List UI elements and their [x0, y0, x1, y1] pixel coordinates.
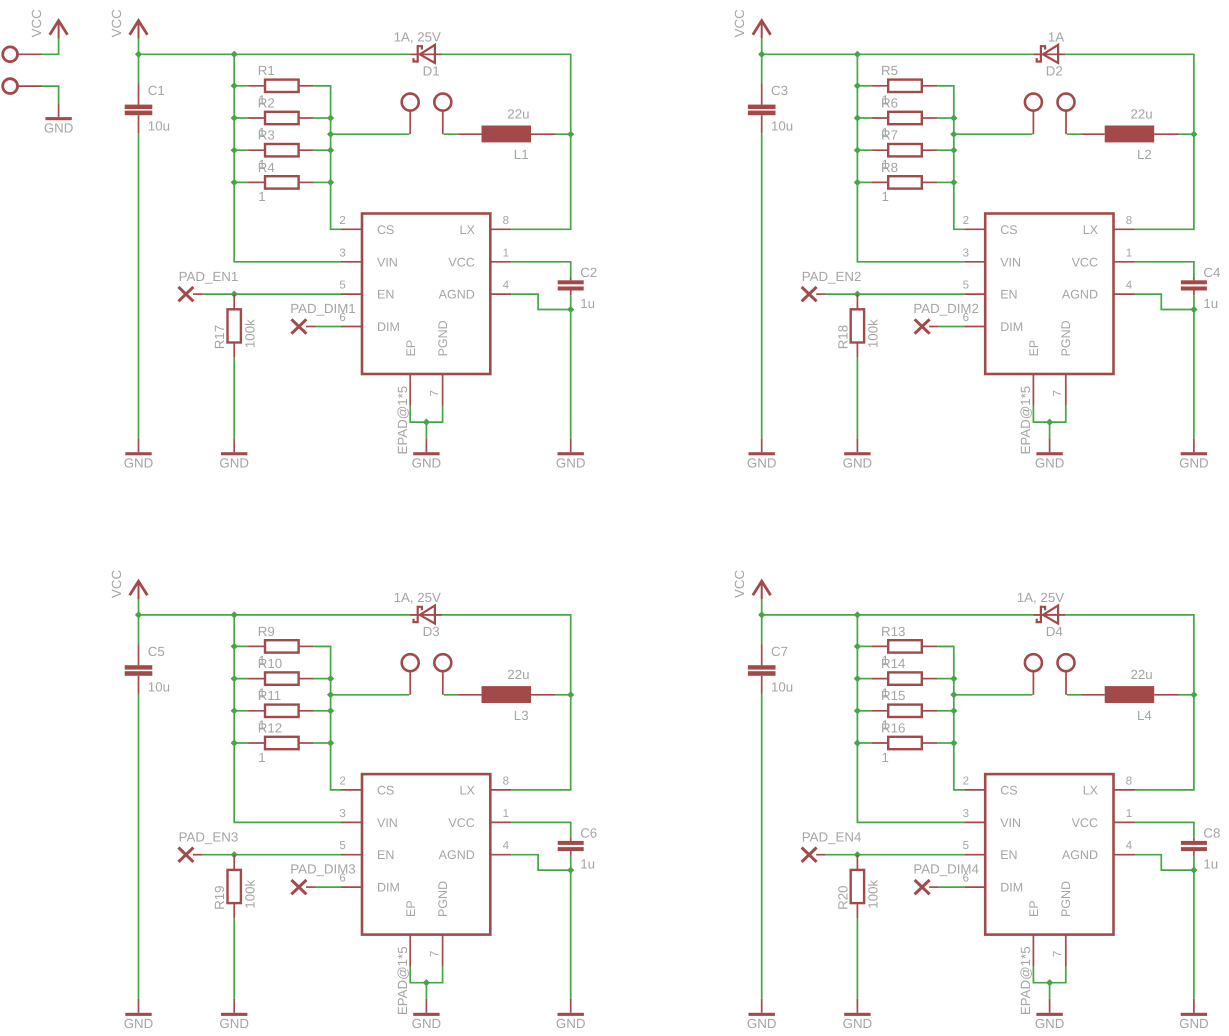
- svg-text:R14: R14: [881, 656, 905, 671]
- svg-text:VIN: VIN: [1000, 255, 1021, 269]
- junction right of R11: [327, 707, 334, 714]
- svg-text:100k: 100k: [866, 880, 881, 909]
- wire VCC stem: [138, 38, 140, 54]
- power flag VCC Q1: [130, 21, 148, 35]
- svg-text:R6: R6: [881, 95, 898, 110]
- svg-text:C1: C1: [148, 83, 165, 98]
- svg-text:GND: GND: [219, 1016, 249, 1031]
- junction left of R13: [854, 643, 861, 650]
- junction left of R5: [854, 82, 861, 89]
- capacitor C2 (1u): [570, 277, 572, 280]
- wire PAD_EN1 to pin EN: [193, 293, 203, 295]
- svg-text:LX: LX: [460, 783, 476, 797]
- pin 6 (DIM) of U2: [964, 326, 985, 328]
- junction jumper wire: [327, 131, 334, 138]
- junction left of R2: [231, 114, 238, 121]
- junction right of R8: [950, 179, 957, 186]
- svg-text:3: 3: [963, 808, 969, 820]
- svg-text:8: 8: [1126, 775, 1132, 787]
- wire EP to junction: [1033, 966, 1049, 982]
- svg-text:R8: R8: [881, 160, 898, 175]
- junction right of R7: [950, 147, 957, 154]
- ground below R18: [856, 438, 858, 452]
- svg-text:GND: GND: [219, 456, 249, 471]
- svg-text:3: 3: [963, 247, 969, 259]
- svg-text:R3: R3: [258, 128, 275, 143]
- svg-text:LX: LX: [460, 223, 476, 237]
- junction LX rail: [567, 691, 574, 698]
- wire C6 to junction: [570, 856, 572, 870]
- svg-text:DIM: DIM: [1000, 881, 1023, 895]
- ground below R17: [233, 438, 235, 452]
- svg-text:1: 1: [882, 750, 889, 765]
- junction jumper wire: [950, 131, 957, 138]
- svg-text:AGND: AGND: [1062, 288, 1098, 302]
- wire resistor bank left rail: [234, 615, 341, 823]
- schottky diode D2: [1034, 53, 1066, 55]
- wire X1-1 to VCC: [42, 38, 59, 54]
- svg-text:2: 2: [339, 215, 345, 227]
- wire pin VCC to C2: [511, 262, 570, 277]
- svg-text:R5: R5: [881, 63, 898, 78]
- junction right of R6: [950, 114, 957, 121]
- capacitor C5 (10u): [138, 644, 140, 665]
- svg-text:1: 1: [503, 808, 509, 820]
- capacitor C6 (1u): [570, 838, 572, 841]
- wire VCC to C7: [761, 615, 763, 644]
- wire L1 to LX rail: [556, 133, 571, 135]
- junction R19 on EN net: [231, 851, 238, 858]
- wire C1 to ground: [138, 133, 140, 438]
- wire junction to ground: [425, 983, 427, 999]
- pad PAD_EN4 cross: [802, 848, 817, 862]
- svg-text:5: 5: [963, 280, 969, 292]
- svg-text:10u: 10u: [771, 119, 793, 134]
- svg-text:PAD_EN2: PAD_EN2: [802, 269, 862, 284]
- junction right of R3: [327, 147, 334, 154]
- svg-text:8: 8: [503, 775, 509, 787]
- junction LX rail: [1190, 131, 1197, 138]
- wire R18 to ground: [856, 358, 858, 439]
- pin 3 (VIN) of U1: [341, 261, 362, 263]
- wire resistor bank left rail: [234, 54, 341, 261]
- wire EP to junction: [410, 966, 426, 982]
- wire to jumper: [954, 694, 1033, 696]
- svg-text:100k: 100k: [243, 319, 258, 348]
- svg-text:VCC: VCC: [1072, 816, 1098, 830]
- wire jumper to L2: [1067, 133, 1082, 135]
- pin 1 (VCC) of U3: [490, 821, 511, 823]
- svg-text:VIN: VIN: [1000, 816, 1021, 830]
- jumper pad 1: [402, 94, 419, 111]
- ground below C3: [761, 438, 763, 452]
- svg-text:GND: GND: [843, 456, 873, 471]
- svg-text:R13: R13: [881, 624, 905, 639]
- resistor R13: [856, 645, 872, 647]
- svg-text:7: 7: [429, 951, 441, 957]
- resistor R18 (100k): [856, 294, 858, 309]
- jumper pad 2: [434, 94, 451, 111]
- svg-text:VIN: VIN: [377, 255, 398, 269]
- ground below C7: [761, 999, 763, 1013]
- wire AGND junction to ground: [1193, 310, 1195, 439]
- ground below R19: [233, 999, 235, 1013]
- wire junction to ground: [425, 422, 427, 438]
- junction at VCC: [758, 51, 765, 58]
- junction left of R7: [854, 147, 861, 154]
- svg-text:R15: R15: [881, 688, 905, 703]
- svg-text:PAD_DIM2: PAD_DIM2: [913, 301, 979, 316]
- wire jumper to L3: [444, 694, 459, 696]
- pin 3 (VIN) of U3: [341, 821, 362, 823]
- ground below U4: [1049, 999, 1051, 1013]
- svg-text:2: 2: [339, 775, 345, 787]
- svg-text:PAD_EN1: PAD_EN1: [179, 269, 239, 284]
- svg-text:GND: GND: [1035, 456, 1065, 471]
- resistor R16: [856, 742, 872, 744]
- resistor R3: [232, 149, 248, 151]
- jumper pad 2: [434, 654, 451, 671]
- ground below U2: [1049, 438, 1051, 452]
- wire to jumper: [954, 133, 1033, 135]
- wire pin AGND: [511, 855, 570, 870]
- svg-text:1A, 25V: 1A, 25V: [394, 30, 441, 45]
- wire AGND junction to ground: [570, 310, 572, 439]
- pin 2 (CS) of U1: [341, 228, 362, 230]
- junction right of R12: [327, 739, 334, 746]
- ground below C6: [570, 999, 572, 1013]
- pin 7 (PGND) of U3: [442, 935, 444, 967]
- junction AGND/C8: [1190, 867, 1197, 874]
- schottky diode D4: [1034, 614, 1066, 616]
- junction rail top: [854, 611, 861, 618]
- svg-text:EP: EP: [404, 900, 418, 917]
- svg-text:AGND: AGND: [1062, 848, 1098, 862]
- ground below C1: [138, 438, 140, 452]
- svg-text:GND: GND: [124, 456, 154, 471]
- svg-text:100k: 100k: [866, 319, 881, 348]
- svg-text:GND: GND: [843, 1016, 873, 1031]
- svg-text:GND: GND: [556, 1016, 586, 1031]
- svg-text:1: 1: [882, 189, 889, 204]
- wire L2 to LX rail: [1179, 133, 1194, 135]
- wire pin VCC to C8: [1135, 822, 1194, 837]
- svg-text:4: 4: [503, 280, 510, 292]
- wire VCC top rail: [762, 615, 1194, 790]
- svg-text:10u: 10u: [771, 679, 793, 694]
- capacitor C1 (10u): [138, 84, 140, 105]
- junction rail top: [854, 51, 861, 58]
- pin 6 (DIM) of U4: [964, 886, 985, 888]
- wire VCC to C5: [138, 615, 140, 644]
- pin 7 (PGND) of U1: [442, 374, 444, 406]
- wire PAD_DIM3 to pin DIM: [306, 886, 316, 888]
- svg-text:EN: EN: [1000, 288, 1017, 302]
- resistor R9: [232, 645, 248, 647]
- svg-text:EN: EN: [377, 288, 394, 302]
- connector pad X1-2 (GND): [3, 79, 18, 94]
- pad PAD_DIM3 cross: [291, 880, 306, 894]
- wire C7 to ground: [761, 694, 763, 999]
- svg-text:4: 4: [503, 840, 510, 852]
- wire resistor bank left rail: [857, 54, 964, 261]
- svg-text:EP: EP: [1027, 900, 1041, 917]
- pin 7 (PGND) of U4: [1065, 935, 1067, 967]
- wire jumper to L1: [444, 133, 459, 135]
- wire to jumper: [331, 694, 410, 696]
- power flag VCC connector: [50, 21, 68, 35]
- pin EP of U2: [1032, 374, 1034, 406]
- junction jumper wire: [327, 691, 334, 698]
- pin 8 (LX) of U3: [490, 789, 511, 791]
- svg-text:7: 7: [1052, 951, 1064, 957]
- svg-text:R2: R2: [258, 95, 275, 110]
- pin 2 (CS) of U4: [964, 789, 985, 791]
- junction at VCC: [758, 611, 765, 618]
- pad PAD_EN3 cross: [178, 848, 193, 862]
- pin 3 (VIN) of U2: [964, 261, 985, 263]
- svg-text:1: 1: [258, 189, 265, 204]
- pin 1 (VCC) of U1: [490, 261, 511, 263]
- pin 1 (VCC) of U4: [1114, 821, 1135, 823]
- junction left of R11: [231, 707, 238, 714]
- svg-text:2: 2: [963, 775, 969, 787]
- svg-text:DIM: DIM: [377, 881, 400, 895]
- resistor R11: [232, 710, 248, 712]
- svg-text:5: 5: [339, 280, 345, 292]
- resistor R10: [232, 678, 248, 680]
- jumper pad 2: [1058, 94, 1075, 111]
- inductor L3 (22u): [458, 694, 481, 696]
- wire X1-2 to GND: [42, 86, 59, 103]
- pad PAD_DIM1 cross: [291, 319, 306, 333]
- svg-text:PAD_DIM1: PAD_DIM1: [290, 301, 356, 316]
- svg-text:VCC: VCC: [29, 9, 44, 37]
- jumper pad 2: [1058, 654, 1075, 671]
- wire PAD_DIM4 to pin DIM: [929, 886, 939, 888]
- junction AGND/C2: [567, 306, 574, 313]
- svg-text:1u: 1u: [580, 857, 595, 872]
- svg-text:4: 4: [1126, 280, 1133, 292]
- svg-text:10u: 10u: [148, 679, 170, 694]
- resistor R8: [856, 181, 872, 183]
- wire VCC top rail: [139, 615, 571, 790]
- svg-text:GND: GND: [44, 121, 74, 136]
- junction right of R16: [950, 739, 957, 746]
- wire VCC top rail: [139, 54, 571, 229]
- svg-text:VIN: VIN: [377, 816, 398, 830]
- svg-text:LX: LX: [1083, 223, 1099, 237]
- svg-text:VCC: VCC: [1072, 255, 1098, 269]
- svg-text:R18: R18: [835, 325, 850, 349]
- pad PAD_DIM4 cross: [915, 880, 930, 894]
- pin EP of U3: [409, 935, 411, 967]
- svg-text:GND: GND: [124, 1016, 154, 1031]
- junction left of R15: [854, 707, 861, 714]
- junction EP/PGND: [1046, 979, 1053, 986]
- svg-text:10u: 10u: [148, 119, 170, 134]
- junction rail top: [231, 611, 238, 618]
- pad PAD_EN1 cross: [178, 287, 193, 301]
- svg-text:CS: CS: [377, 783, 394, 797]
- svg-text:EPAD@1*5: EPAD@1*5: [1018, 946, 1033, 1015]
- ground below U1: [425, 438, 427, 452]
- wire pin AGND: [511, 294, 570, 309]
- wire PAD_DIM2 to pin DIM: [929, 326, 939, 328]
- wire to jumper: [331, 133, 410, 135]
- svg-text:PGND: PGND: [436, 881, 450, 917]
- schottky diode D3: [410, 614, 442, 616]
- ground below C8: [1193, 999, 1195, 1013]
- junction R20 on EN net: [854, 851, 861, 858]
- svg-text:L1: L1: [514, 147, 529, 162]
- svg-text:EPAD@1*5: EPAD@1*5: [1018, 386, 1033, 455]
- svg-text:VCC: VCC: [448, 255, 474, 269]
- svg-text:22u: 22u: [1131, 106, 1153, 121]
- svg-text:R16: R16: [881, 720, 905, 735]
- junction left of R8: [854, 179, 861, 186]
- IC U2 body: [985, 214, 1113, 375]
- svg-text:DIM: DIM: [377, 320, 400, 334]
- wire C4 to junction: [1193, 295, 1195, 309]
- wire resistor bank right rail: [316, 646, 342, 790]
- junction right of R14: [950, 675, 957, 682]
- ground below U3: [425, 999, 427, 1013]
- svg-text:LX: LX: [1083, 783, 1099, 797]
- svg-text:1A: 1A: [1048, 30, 1064, 45]
- pin 6 (DIM) of U1: [341, 326, 362, 328]
- wire EP to junction: [1033, 406, 1049, 422]
- junction jumper wire: [950, 691, 957, 698]
- wire pin7 to junction: [426, 406, 442, 422]
- svg-text:C2: C2: [580, 265, 597, 280]
- pin 5 (EN) of U1: [341, 293, 362, 295]
- pin 2 (CS) of U2: [964, 228, 985, 230]
- svg-text:R19: R19: [212, 885, 227, 909]
- wire resistor bank right rail: [939, 646, 965, 790]
- wire pin7 to junction: [1050, 966, 1066, 982]
- pin 5 (EN) of U3: [341, 854, 362, 856]
- pin 4 (AGND) of U4: [1114, 854, 1135, 856]
- svg-text:C8: C8: [1203, 826, 1220, 841]
- svg-text:AGND: AGND: [439, 288, 475, 302]
- IC U3 body: [362, 774, 490, 935]
- svg-text:GND: GND: [412, 456, 442, 471]
- svg-text:EP: EP: [404, 340, 418, 357]
- ground below R20: [856, 999, 858, 1013]
- pin 6 (DIM) of U3: [341, 886, 362, 888]
- wire pin VCC to C6: [511, 822, 570, 837]
- wire VCC stem: [761, 38, 763, 54]
- resistor R2: [232, 117, 248, 119]
- resistor R5: [856, 85, 872, 87]
- svg-text:1u: 1u: [1203, 296, 1218, 311]
- svg-text:1A, 25V: 1A, 25V: [394, 590, 441, 605]
- wire VCC to C1: [138, 54, 140, 83]
- svg-text:R4: R4: [258, 160, 275, 175]
- resistor R15: [856, 710, 872, 712]
- svg-text:C5: C5: [148, 644, 165, 659]
- junction R18 on EN net: [854, 291, 861, 298]
- svg-text:1: 1: [1126, 247, 1132, 259]
- svg-text:7: 7: [429, 390, 441, 396]
- junction rail top: [231, 51, 238, 58]
- svg-text:5: 5: [339, 840, 345, 852]
- wire C3 to ground: [761, 133, 763, 438]
- svg-text:VCC: VCC: [109, 570, 124, 598]
- pin 4 (AGND) of U2: [1114, 293, 1135, 295]
- capacitor C8 (1u): [1193, 838, 1195, 841]
- svg-text:DIM: DIM: [1000, 320, 1023, 334]
- wire R20 to ground: [856, 918, 858, 999]
- svg-text:8: 8: [503, 215, 509, 227]
- junction LX rail: [567, 131, 574, 138]
- wire PAD_EN4 to pin EN: [816, 854, 826, 856]
- wire L3 to LX rail: [556, 694, 571, 696]
- ground below C2: [570, 438, 572, 452]
- svg-text:PAD_EN4: PAD_EN4: [802, 830, 862, 845]
- inductor L4 (22u): [1082, 694, 1105, 696]
- connector pad X1-1 (VCC): [3, 47, 18, 62]
- wire PAD_DIM1 to pin DIM: [306, 326, 316, 328]
- wire pin AGND: [1135, 855, 1194, 870]
- wire PAD_EN2 to pin EN: [816, 293, 826, 295]
- inductor L2 (22u): [1082, 133, 1105, 135]
- svg-text:R11: R11: [258, 688, 281, 703]
- svg-text:CS: CS: [1000, 783, 1017, 797]
- svg-text:R20: R20: [835, 885, 850, 909]
- junction left of R14: [854, 675, 861, 682]
- capacitor C4 (1u): [1193, 277, 1195, 280]
- wire AGND junction to ground: [1193, 870, 1195, 999]
- wire VCC to C3: [761, 54, 763, 83]
- svg-text:C6: C6: [580, 826, 597, 841]
- svg-text:EP: EP: [1027, 340, 1041, 357]
- ground connector: [58, 103, 60, 117]
- pin 3 (VIN) of U4: [964, 821, 985, 823]
- power flag VCC Q4: [753, 581, 771, 595]
- svg-text:PAD_EN3: PAD_EN3: [179, 830, 239, 845]
- svg-text:R9: R9: [258, 624, 275, 639]
- pin 5 (EN) of U4: [964, 854, 985, 856]
- svg-text:D2: D2: [1046, 64, 1063, 79]
- svg-text:C4: C4: [1203, 265, 1220, 280]
- svg-text:PGND: PGND: [436, 320, 450, 356]
- resistor R19 (100k): [233, 855, 235, 870]
- svg-text:VCC: VCC: [732, 9, 747, 37]
- svg-text:R7: R7: [881, 128, 898, 143]
- svg-text:EPAD@1*5: EPAD@1*5: [395, 946, 410, 1015]
- svg-text:5: 5: [963, 840, 969, 852]
- junction right of R4: [327, 179, 334, 186]
- pad PAD_EN2 cross: [802, 287, 817, 301]
- svg-text:EN: EN: [377, 848, 394, 862]
- wire jumper to L4: [1067, 694, 1082, 696]
- pin 1 (VCC) of U2: [1114, 261, 1135, 263]
- svg-text:22u: 22u: [1131, 667, 1153, 682]
- svg-text:8: 8: [1126, 215, 1132, 227]
- wire VCC stem: [761, 599, 763, 615]
- svg-text:4: 4: [1126, 840, 1133, 852]
- svg-text:D3: D3: [423, 624, 440, 639]
- svg-text:R12: R12: [258, 720, 282, 735]
- junction R17 on EN net: [231, 291, 238, 298]
- wire AGND junction to ground: [570, 870, 572, 999]
- svg-text:R10: R10: [258, 656, 282, 671]
- svg-text:L2: L2: [1137, 147, 1152, 162]
- svg-text:L3: L3: [514, 708, 529, 723]
- junction AGND/C4: [1190, 306, 1197, 313]
